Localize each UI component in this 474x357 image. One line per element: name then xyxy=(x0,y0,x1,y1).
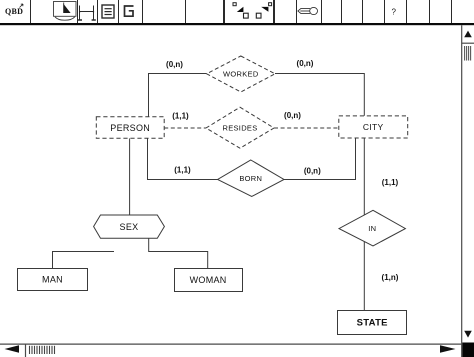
scrollbar corner black block xyxy=(462,343,474,357)
toolbar icon G xyxy=(125,6,134,16)
toolbar icon lined document xyxy=(102,5,114,18)
relationship IN xyxy=(339,210,405,246)
svg-text:QBD: QBD xyxy=(5,7,23,16)
vertical scrollbar separator xyxy=(462,42,474,44)
wire RESIDES to CITY dashed xyxy=(274,127,339,129)
horizontal scrollbar left arrow xyxy=(5,345,20,352)
vertical scrollbar border xyxy=(461,25,463,357)
wire SEX to WOMAN xyxy=(149,238,208,268)
svg-text:IN: IN xyxy=(368,224,376,233)
attribute SEX hexagon xyxy=(94,215,165,238)
relationship BORN xyxy=(218,160,284,197)
relationship WORKED xyxy=(207,56,275,92)
svg-text:(1,1): (1,1) xyxy=(174,166,191,175)
toolbar icon marker right xyxy=(256,3,271,18)
toolbar icon I-beam table xyxy=(78,6,96,21)
svg-text:?: ? xyxy=(392,8,397,17)
wire SEX to MAN xyxy=(53,252,115,269)
wire WORKED to CITY xyxy=(275,74,364,116)
svg-text:WORKED: WORKED xyxy=(223,70,259,79)
svg-text:(0,n): (0,n) xyxy=(284,111,301,120)
toolbar button sailboat xyxy=(54,2,77,21)
svg-text:RESIDES: RESIDES xyxy=(222,124,257,133)
horizontal scrollbar right arrow xyxy=(440,345,456,352)
svg-text:(0,n): (0,n) xyxy=(304,166,321,175)
wire PERSON to BORN xyxy=(148,138,218,179)
wire CITY to IN to STATE xyxy=(363,138,365,310)
horizontal scrollbar top border xyxy=(0,343,462,345)
relationship RESIDES xyxy=(206,107,274,148)
wire WORKED to PERSON xyxy=(149,74,207,117)
entity box STATE xyxy=(338,311,407,335)
toolbar logo QBD xyxy=(5,4,23,16)
svg-text:STATE: STATE xyxy=(357,318,388,329)
svg-text:CITY: CITY xyxy=(363,122,384,132)
horizontal scrollbar arrow divider xyxy=(25,344,27,357)
svg-text:(1,1): (1,1) xyxy=(382,178,399,187)
toolbar bottom black bar xyxy=(0,23,474,25)
svg-text:(1,n): (1,n) xyxy=(382,273,399,282)
svg-text:(0,n): (0,n) xyxy=(297,59,314,68)
wire PERSON to SEX xyxy=(129,138,131,215)
entity CITY xyxy=(339,116,408,138)
vertical scrollbar up arrow xyxy=(464,31,472,38)
wire BORN to CITY xyxy=(284,138,356,180)
subtype box MAN xyxy=(18,269,88,291)
svg-text:BORN: BORN xyxy=(239,174,262,183)
wire PERSON to RESIDES dashed xyxy=(164,127,206,129)
horizontal scrollbar thumb hatch xyxy=(30,346,55,354)
toolbar icon marker left xyxy=(233,3,248,18)
entity PERSON xyxy=(96,117,164,139)
ER diagram xyxy=(18,56,408,335)
svg-text:PERSON: PERSON xyxy=(110,123,150,133)
svg-text:(0,n): (0,n) xyxy=(166,60,183,69)
subtype box WOMAN xyxy=(175,269,243,292)
vertical scrollbar thumb hatch xyxy=(465,46,471,61)
toolbar cell dividers xyxy=(31,0,452,23)
svg-text:SEX: SEX xyxy=(120,222,139,232)
vertical scrollbar down arrow xyxy=(464,331,472,338)
svg-text:MAN: MAN xyxy=(42,275,63,285)
toolbar icon key xyxy=(298,7,318,14)
svg-text:(1,1): (1,1) xyxy=(172,112,189,121)
svg-text:WOMAN: WOMAN xyxy=(190,275,227,285)
